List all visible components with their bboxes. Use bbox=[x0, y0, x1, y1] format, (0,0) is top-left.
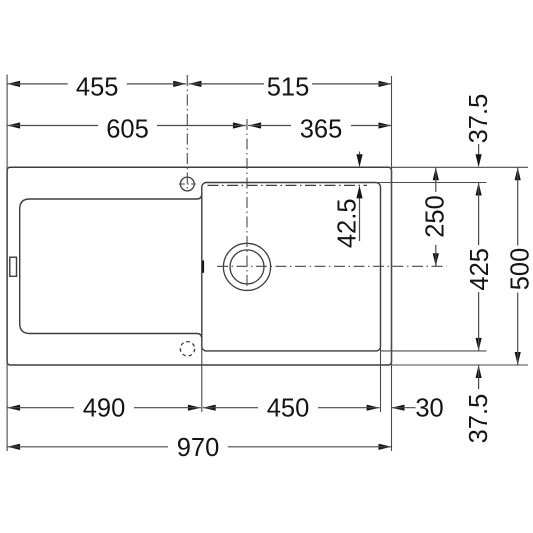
drain inner circle bbox=[230, 250, 264, 284]
dim 30 bbox=[392, 405, 405, 411]
svg-text:425: 425 bbox=[466, 248, 494, 291]
dim 425 bbox=[476, 183, 482, 196]
svg-text:365: 365 bbox=[300, 115, 343, 143]
bowl-right lower extension line bbox=[380, 347, 382, 412]
bowl bottom right extension bbox=[381, 350, 487, 352]
dim 365 bbox=[248, 122, 261, 128]
vertical centerline through drain bbox=[246, 119, 248, 293]
svg-text:455: 455 bbox=[76, 74, 119, 102]
svg-text:970: 970 bbox=[177, 434, 220, 462]
dim 450 bbox=[203, 405, 216, 411]
bottom edge right extension bbox=[392, 364, 529, 366]
faucet hole vertical centerline / extension line bbox=[186, 75, 188, 192]
bowl-left lower extension line bbox=[201, 347, 203, 412]
svg-text:515: 515 bbox=[267, 74, 310, 102]
svg-text:450: 450 bbox=[267, 395, 310, 423]
svg-text:37.5: 37.5 bbox=[465, 94, 493, 144]
optional tap hole (dashed circle) bbox=[180, 342, 194, 356]
dim 515 bbox=[189, 81, 202, 87]
dim 500 bbox=[515, 167, 521, 180]
dim 605 bbox=[7, 122, 20, 128]
svg-text:500: 500 bbox=[506, 248, 533, 291]
bowl inner rim centerline bbox=[208, 184, 368, 186]
sink outer outline bbox=[7, 167, 391, 365]
left extension line bbox=[6, 75, 8, 452]
dim 455 bbox=[7, 81, 20, 87]
dim 42.5 bbox=[356, 154, 362, 167]
faucet hole bbox=[180, 177, 194, 191]
svg-text:605: 605 bbox=[106, 115, 149, 143]
faucet hole horizontal centerline bbox=[179, 183, 196, 185]
horizontal centerline through drain bbox=[217, 265, 447, 267]
svg-text:37.5: 37.5 bbox=[465, 394, 493, 444]
drainboard inner panel bbox=[20, 194, 202, 338]
drain outer circle bbox=[223, 243, 270, 290]
svg-text:250: 250 bbox=[421, 195, 449, 238]
dim 250 bbox=[433, 167, 439, 180]
right extension line bbox=[391, 76, 393, 451]
dim 490 bbox=[7, 405, 20, 411]
top edge right extension bbox=[392, 166, 529, 168]
svg-text:42.5: 42.5 bbox=[334, 198, 362, 248]
dim 37.5 bottom bbox=[476, 365, 482, 378]
overflow tick on bowl left wall bbox=[202, 260, 204, 272]
bowl top right extension bbox=[376, 182, 487, 184]
dim 970 bbox=[7, 444, 20, 450]
overflow marker rectangle on left edge bbox=[10, 257, 17, 276]
svg-text:490: 490 bbox=[83, 395, 126, 423]
svg-text:30: 30 bbox=[415, 395, 443, 423]
bowl outline bbox=[202, 183, 381, 351]
